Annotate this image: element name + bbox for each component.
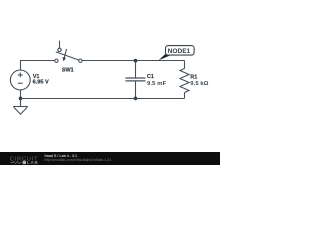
SW1 lever <box>56 52 79 60</box>
C1 top lead <box>135 61 137 78</box>
voltage source V1 <box>10 70 30 90</box>
svg-text:http//circuitlab.com/c/9ba46dp: http//circuitlab.com/c/9ba46dps2m5/lab-4… <box>44 158 111 162</box>
R1 zigzag body <box>180 69 189 93</box>
wire V1 bottom lead to bottom rail <box>20 90 22 99</box>
ground <box>13 107 28 115</box>
node flag NODE1 pointer wedge <box>158 53 171 61</box>
svg-text:9.5 mF: 9.5 mF <box>147 81 167 87</box>
switch SW1 <box>55 41 82 63</box>
SW1 actuation arrow shaft <box>64 49 67 58</box>
SW1 arrowhead <box>62 57 66 61</box>
footer bar <box>0 152 220 165</box>
node junction dot at V1 bottom <box>19 97 23 101</box>
C1 bottom plate <box>126 80 146 82</box>
CircuitLab logo block <box>23 161 26 164</box>
SW1 right terminal <box>79 59 82 62</box>
svg-text:6.95 V: 6.95 V <box>33 80 49 86</box>
svg-text:Saad S / Lab 4 - 3.1: Saad S / Lab 4 - 3.1 <box>44 154 77 158</box>
SW1 top terminal <box>58 48 61 51</box>
capacitor C1 <box>126 61 146 99</box>
C1 bottom lead <box>135 81 137 98</box>
svg-text:9.5 kΩ: 9.5 kΩ <box>190 81 208 87</box>
svg-text:LAB: LAB <box>27 160 39 165</box>
svg-text:C1: C1 <box>147 74 154 80</box>
wire V1 top lead up and across to SW1 left terminal <box>21 61 55 71</box>
resistor R1 <box>180 61 189 99</box>
C1 top plate <box>126 77 146 79</box>
SW1 left terminal <box>55 59 58 62</box>
node flag NODE1 box <box>166 46 195 56</box>
node junction dot C1 top <box>134 59 138 63</box>
svg-text:NODE1: NODE1 <box>168 48 191 55</box>
svg-text:SW1: SW1 <box>62 68 74 74</box>
node junction dot C1 bottom <box>134 97 138 101</box>
SW1 top stub wire <box>59 41 61 49</box>
CircuitLab logo zigzag <box>10 161 21 163</box>
svg-text:R1: R1 <box>190 74 197 80</box>
wire SW1 right terminal to top-right corner <box>82 60 184 62</box>
wire ground stub <box>20 99 22 107</box>
wire bottom rail <box>21 98 185 100</box>
R1 top lead from top rail corner <box>184 61 186 69</box>
R1 bottom lead <box>184 93 186 99</box>
